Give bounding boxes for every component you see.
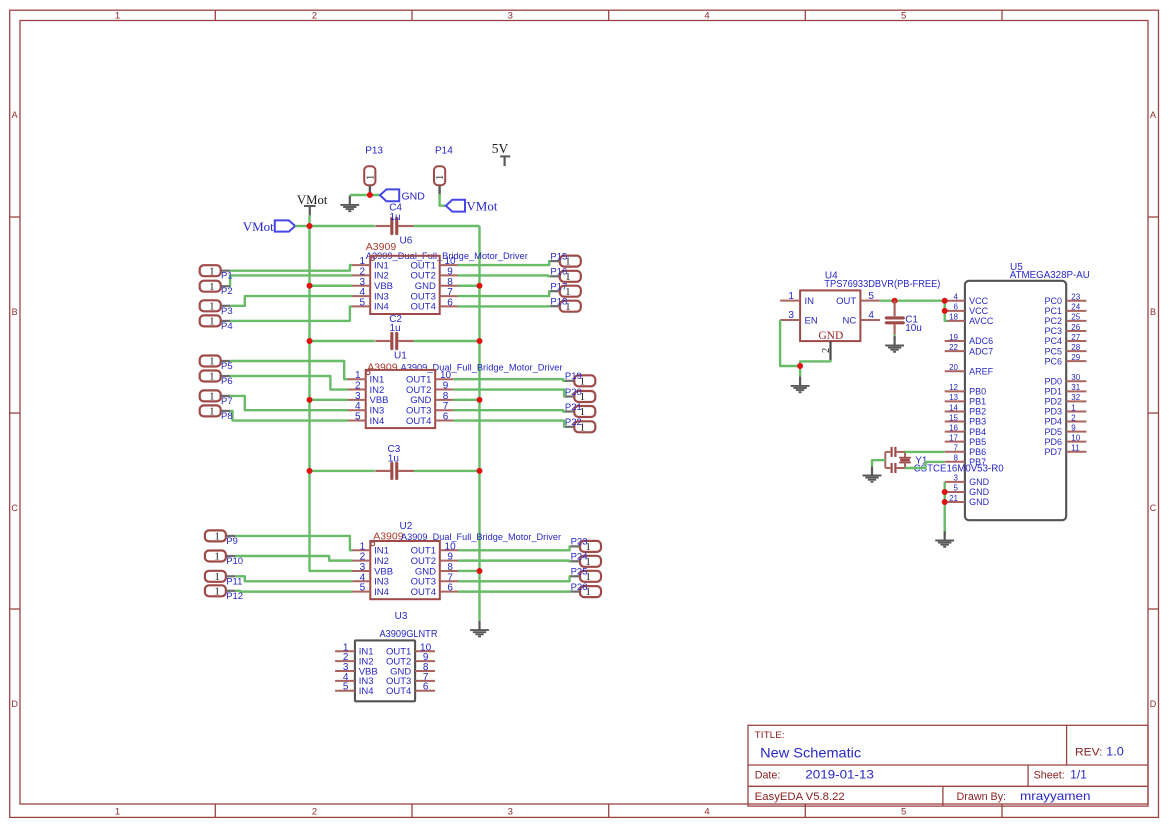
wire VMot bus to C2 xyxy=(310,340,375,342)
svg-text:28: 28 xyxy=(1071,343,1080,352)
wire P12 to U2 IN4 xyxy=(235,590,352,593)
svg-text:5: 5 xyxy=(901,11,906,22)
svg-text:EasyEDA V5.8.22: EasyEDA V5.8.22 xyxy=(755,791,845,803)
connector P9 xyxy=(205,530,238,547)
svg-text:12: 12 xyxy=(949,383,958,392)
svg-text:21: 21 xyxy=(949,494,958,503)
svg-text:ATMEGA328P-AU: ATMEGA328P-AU xyxy=(1010,270,1090,281)
wire P10 to U2 IN2 xyxy=(235,556,352,561)
wire VMot bus to U1 VBB xyxy=(310,399,348,401)
svg-text:1: 1 xyxy=(1071,403,1076,412)
wire P1 to U6 IN1 xyxy=(230,265,352,271)
svg-text:P2: P2 xyxy=(221,286,233,297)
svg-text:ADC6: ADC6 xyxy=(969,336,993,346)
svg-text:3: 3 xyxy=(508,807,513,818)
wire U2 GND to GND bus xyxy=(458,570,480,572)
svg-text:1.0: 1.0 xyxy=(1106,744,1124,758)
wire U4 GND pin to ground node xyxy=(800,360,830,377)
wire P9 to U2 IN1 xyxy=(235,536,352,550)
wire U6 OUT2 to P16 xyxy=(458,274,551,277)
svg-text:U1: U1 xyxy=(394,351,407,362)
svg-text:PC5: PC5 xyxy=(1044,346,1062,356)
svg-text:P6: P6 xyxy=(221,376,233,387)
svg-text:1u: 1u xyxy=(390,212,401,223)
svg-text:1/1: 1/1 xyxy=(1070,768,1087,782)
svg-text:D: D xyxy=(11,699,18,709)
connector P12 xyxy=(205,585,243,602)
wire U4 EN to ground node xyxy=(780,320,800,366)
connector P23 xyxy=(571,537,601,553)
svg-text:5V: 5V xyxy=(492,141,509,156)
svg-text:16: 16 xyxy=(949,423,958,432)
svg-text:1: 1 xyxy=(115,11,120,22)
svg-text:PD1: PD1 xyxy=(1044,387,1062,397)
svg-text:P11: P11 xyxy=(226,576,242,587)
svg-text:13: 13 xyxy=(949,393,958,402)
svg-text:OUT4: OUT4 xyxy=(411,302,436,313)
wire VMot bus to C3 xyxy=(310,470,375,472)
wire VMot vertical bus (left) xyxy=(310,226,353,571)
wire VMot flag to bus xyxy=(295,225,309,227)
connector P20 xyxy=(565,387,595,403)
svg-text:P16: P16 xyxy=(550,267,567,278)
svg-text:1: 1 xyxy=(209,356,215,368)
net flag VMot (left) xyxy=(243,219,295,234)
svg-text:IN: IN xyxy=(805,296,815,307)
connector P7 xyxy=(200,390,233,407)
svg-text:3: 3 xyxy=(788,310,794,321)
svg-text:6: 6 xyxy=(447,583,453,594)
connector P6 xyxy=(200,371,233,388)
junction GND bus / U6 GND xyxy=(477,283,483,289)
wire U4 OUT to U5 VCC/AVCC xyxy=(945,301,947,321)
svg-text:D: D xyxy=(1150,699,1157,709)
svg-text:PD6: PD6 xyxy=(1044,437,1062,447)
svg-text:GND: GND xyxy=(969,497,990,507)
connector P10 xyxy=(205,551,243,568)
connector P3 xyxy=(200,300,233,317)
ground below U5 GND pins xyxy=(935,531,954,547)
frame column numbers bottom xyxy=(115,807,906,818)
ground below C1 xyxy=(885,336,904,352)
IC U1 A3909 dual full bridge motor driver xyxy=(348,370,454,428)
wire U5 GND pins to ground xyxy=(944,482,946,537)
IC U5 ATMEGA328P-AU microcontroller xyxy=(945,281,1087,520)
IC U6 A3909 dual full bridge motor driver xyxy=(352,256,458,314)
svg-text:31: 31 xyxy=(1071,383,1080,392)
svg-text:PD7: PD7 xyxy=(1044,447,1062,457)
wire U6 OUT3 to P17 xyxy=(458,291,551,296)
svg-text:1: 1 xyxy=(209,371,215,383)
connector P5 xyxy=(200,356,233,373)
svg-text:PD2: PD2 xyxy=(1044,397,1062,407)
wire P7 to U1 IN3 xyxy=(230,396,348,410)
svg-text:P13: P13 xyxy=(365,145,383,156)
capacitor C2 1u xyxy=(375,314,414,349)
svg-text:Sheet:: Sheet: xyxy=(1034,770,1065,782)
svg-text:10u: 10u xyxy=(905,323,922,334)
wire P2 to U6 IN2 xyxy=(230,275,353,286)
svg-text:New Schematic: New Schematic xyxy=(760,744,861,760)
wire Y1 to PB7 xyxy=(905,462,945,468)
svg-text:OUT4: OUT4 xyxy=(386,686,411,697)
svg-text:1: 1 xyxy=(214,531,220,543)
connector P18 xyxy=(550,297,580,313)
junction VMot bus / U1 VBB xyxy=(307,397,313,403)
connector P14 xyxy=(434,145,453,195)
frame row letters left xyxy=(11,110,18,709)
connector P2 xyxy=(200,281,233,298)
svg-text:6: 6 xyxy=(423,682,429,693)
svg-text:GND: GND xyxy=(402,190,426,202)
wire U6 GND to GND bus xyxy=(458,285,480,287)
junction VMot bus / C2 xyxy=(307,338,313,344)
svg-text:6: 6 xyxy=(443,412,449,423)
connector P25 xyxy=(571,567,601,583)
svg-text:P7: P7 xyxy=(221,396,233,407)
junction VMot flag / bus xyxy=(307,223,313,229)
wire U1 GND to GND bus xyxy=(453,399,479,401)
svg-text:9: 9 xyxy=(1071,423,1076,432)
svg-text:1: 1 xyxy=(214,551,220,563)
svg-text:1: 1 xyxy=(209,406,215,418)
svg-text:A: A xyxy=(12,110,18,120)
svg-text:U6: U6 xyxy=(400,236,413,247)
svg-text:1u: 1u xyxy=(390,323,401,334)
svg-text:14: 14 xyxy=(949,403,958,412)
svg-text:AREF: AREF xyxy=(969,366,994,376)
svg-text:U3: U3 xyxy=(395,611,408,622)
wire P4 to U6 IN4 xyxy=(230,306,352,320)
svg-text:Drawn By:: Drawn By: xyxy=(957,791,1007,803)
svg-text:P21: P21 xyxy=(565,402,582,413)
capacitor C1 10u xyxy=(886,301,922,335)
svg-text:A3909: A3909 xyxy=(367,361,398,373)
capacitor C4 leads/wires right to GND bus xyxy=(414,225,480,227)
svg-text:PC0: PC0 xyxy=(1044,296,1062,306)
wire C1 to ground xyxy=(893,334,895,339)
svg-text:P23: P23 xyxy=(571,537,588,548)
wire U2 OUT2 to P24 xyxy=(458,559,571,562)
svg-text:OUT: OUT xyxy=(836,296,856,307)
svg-text:IN4: IN4 xyxy=(374,302,389,313)
wire P3 to U6 IN3 xyxy=(230,296,352,306)
wire U2 OUT3 to P25 xyxy=(458,576,571,581)
svg-text:REV:: REV: xyxy=(1075,746,1103,758)
svg-text:4: 4 xyxy=(704,807,709,818)
ground below U4 xyxy=(791,377,810,393)
wire Y1 to PB6 xyxy=(905,451,945,453)
svg-text:5: 5 xyxy=(360,583,366,594)
svg-text:P10: P10 xyxy=(226,556,243,567)
capacitor C4 1u xyxy=(375,203,414,234)
svg-text:P12: P12 xyxy=(226,591,243,602)
svg-text:1: 1 xyxy=(435,175,446,180)
svg-text:TITLE:: TITLE: xyxy=(755,730,785,741)
junction VCC pin 4 xyxy=(942,298,948,304)
svg-text:PB1: PB1 xyxy=(969,397,986,407)
svg-text:19: 19 xyxy=(949,333,958,342)
junction GND bus / C3 xyxy=(477,468,483,474)
connector P22 xyxy=(565,417,595,433)
svg-text:VMot: VMot xyxy=(297,193,328,207)
wire U1 OUT2 to P20 xyxy=(453,390,565,397)
junction VMot bus / C3 xyxy=(307,468,313,474)
connector P21 xyxy=(565,402,595,418)
wire U1 OUT4 to P22 xyxy=(453,421,565,427)
svg-text:3: 3 xyxy=(954,474,959,483)
svg-text:1: 1 xyxy=(214,585,220,597)
svg-text:1: 1 xyxy=(209,265,215,277)
svg-text:PC4: PC4 xyxy=(1044,336,1062,346)
svg-text:4: 4 xyxy=(868,310,874,321)
svg-text:AVCC: AVCC xyxy=(969,316,994,326)
svg-text:10: 10 xyxy=(1071,433,1080,442)
svg-text:4: 4 xyxy=(704,11,709,22)
svg-text:P25: P25 xyxy=(571,567,588,578)
svg-text:24: 24 xyxy=(1071,303,1080,312)
svg-text:P15: P15 xyxy=(550,251,567,262)
svg-text:PD5: PD5 xyxy=(1044,427,1062,437)
svg-text:P20: P20 xyxy=(565,387,582,398)
resonator Y1 CSTCE16M0V53-R0 xyxy=(885,447,911,473)
svg-text:1: 1 xyxy=(209,300,215,312)
junction VCC pin 6 xyxy=(942,308,948,314)
wire P14 to VMot flag xyxy=(440,194,446,206)
svg-text:PD0: PD0 xyxy=(1044,376,1062,386)
svg-text:PB5: PB5 xyxy=(969,437,986,447)
svg-text:EN: EN xyxy=(805,316,818,327)
svg-text:1: 1 xyxy=(209,281,215,293)
svg-text:IN4: IN4 xyxy=(359,686,374,697)
svg-text:GND: GND xyxy=(969,487,990,497)
svg-text:5: 5 xyxy=(868,291,874,302)
connector P24 xyxy=(571,552,601,568)
ground at bottom of GND bus xyxy=(470,621,489,637)
wire GND vertical bus (right) xyxy=(478,226,480,621)
junction GND pin 21 xyxy=(942,499,948,505)
svg-text:5: 5 xyxy=(360,297,366,308)
svg-text:P4: P4 xyxy=(221,321,233,332)
power flag 5V xyxy=(492,141,510,166)
net flag GND xyxy=(380,189,425,202)
svg-text:P14: P14 xyxy=(435,145,453,156)
connector P11 xyxy=(205,571,243,588)
svg-text:VCC: VCC xyxy=(969,306,989,316)
svg-text:PC1: PC1 xyxy=(1044,306,1062,316)
svg-text:IN4: IN4 xyxy=(370,416,385,427)
svg-text:7: 7 xyxy=(954,444,959,453)
svg-text:30: 30 xyxy=(1071,373,1080,382)
svg-text:2: 2 xyxy=(1071,413,1076,422)
capacitor C3 1u xyxy=(375,444,414,479)
svg-text:P22: P22 xyxy=(565,417,582,428)
wire U1 OUT3 to P21 xyxy=(453,410,565,411)
IC U3 A3909GLNTR xyxy=(335,640,435,701)
svg-text:B: B xyxy=(12,307,18,317)
svg-text:2019-01-13: 2019-01-13 xyxy=(805,768,874,782)
svg-text:1: 1 xyxy=(115,807,120,818)
svg-text:22: 22 xyxy=(949,343,958,352)
junction GND bus / U1 GND xyxy=(477,397,483,403)
connector P4 xyxy=(200,315,233,332)
svg-text:PD3: PD3 xyxy=(1044,407,1062,417)
junction U4 EN/GND xyxy=(797,363,803,369)
svg-text:OUT4: OUT4 xyxy=(411,587,436,598)
svg-text:29: 29 xyxy=(1071,353,1080,362)
svg-text:P1: P1 xyxy=(221,271,233,282)
svg-text:3: 3 xyxy=(508,11,513,22)
net flag VMot (right) xyxy=(446,199,498,214)
svg-text:5: 5 xyxy=(343,682,349,693)
wire VMot flag stem to bus xyxy=(308,215,310,226)
connector P19 xyxy=(565,371,595,387)
svg-text:P3: P3 xyxy=(221,306,233,317)
svg-text:A: A xyxy=(1150,110,1156,120)
svg-text:P18: P18 xyxy=(550,297,567,308)
svg-text:P24: P24 xyxy=(571,552,588,563)
svg-text:P9: P9 xyxy=(226,536,238,547)
svg-text:GND: GND xyxy=(969,477,990,487)
IC U4 TPS76933DBVR voltage regulator xyxy=(780,290,880,360)
connector P15 xyxy=(550,251,580,267)
svg-text:5: 5 xyxy=(954,484,959,493)
wire VMot row to C4 xyxy=(310,225,375,227)
ground near P13 xyxy=(340,196,359,212)
wire P11 to U2 IN3 xyxy=(235,576,352,581)
svg-text:Date:: Date: xyxy=(755,770,781,782)
wire Y1 common to ground xyxy=(872,460,885,466)
svg-text:15: 15 xyxy=(949,413,958,422)
junction P13/GND xyxy=(367,192,373,198)
frame column numbers top xyxy=(115,11,906,22)
svg-text:32: 32 xyxy=(1071,393,1080,402)
svg-text:P5: P5 xyxy=(221,361,233,372)
svg-text:8: 8 xyxy=(954,454,959,463)
svg-text:6: 6 xyxy=(954,303,959,312)
svg-text:C: C xyxy=(1150,503,1157,513)
svg-text:VMot: VMot xyxy=(243,219,274,234)
svg-text:17: 17 xyxy=(949,433,958,442)
wire P6 to U1 IN2 xyxy=(230,376,348,390)
svg-text:PC6: PC6 xyxy=(1044,356,1062,366)
svg-text:11: 11 xyxy=(1071,444,1080,453)
junction VMot bus / U6 VBB xyxy=(307,283,313,289)
svg-text:A3909GLNTR: A3909GLNTR xyxy=(380,629,438,640)
svg-text:PC3: PC3 xyxy=(1044,326,1062,336)
svg-text:PD4: PD4 xyxy=(1044,417,1062,427)
connector P1 xyxy=(200,265,233,282)
connector P8 xyxy=(200,405,233,422)
junction OUT / C1 xyxy=(892,298,898,304)
connector P26 xyxy=(571,582,601,598)
svg-text:P17: P17 xyxy=(550,282,567,293)
wire C2 to GND bus xyxy=(414,340,480,342)
svg-text:1: 1 xyxy=(788,291,794,302)
svg-text:mrayyamen: mrayyamen xyxy=(1020,789,1091,803)
svg-text:5: 5 xyxy=(355,412,361,423)
svg-text:PC2: PC2 xyxy=(1044,316,1062,326)
svg-text:23: 23 xyxy=(1071,293,1080,302)
wire C3 to GND bus xyxy=(414,470,480,472)
junction GND pin 5 xyxy=(942,489,948,495)
svg-text:1: 1 xyxy=(209,316,215,328)
svg-text:2: 2 xyxy=(312,807,317,818)
svg-text:C: C xyxy=(11,503,18,513)
title block xyxy=(748,725,1148,806)
svg-text:B: B xyxy=(1150,307,1156,317)
wire U2 OUT4 to P26 xyxy=(458,590,571,592)
connector P13 xyxy=(364,145,383,195)
svg-text:VCC: VCC xyxy=(969,296,989,306)
svg-text:P8: P8 xyxy=(221,411,233,422)
svg-text:1: 1 xyxy=(209,391,215,403)
svg-text:P26: P26 xyxy=(571,582,588,593)
ground left of Y1 xyxy=(863,466,882,482)
wire U6 OUT1 to P15 xyxy=(458,261,551,265)
svg-text:PB4: PB4 xyxy=(969,427,986,437)
svg-text:TPS76933DBVR(PB-FREE): TPS76933DBVR(PB-FREE) xyxy=(824,279,940,290)
svg-text:NC: NC xyxy=(842,316,856,327)
svg-text:IN4: IN4 xyxy=(374,587,389,598)
frame row letters right xyxy=(1150,110,1157,709)
wire U1 OUT1 to P19 xyxy=(453,379,565,381)
svg-text:PB6: PB6 xyxy=(969,447,986,457)
wire VMot bus to U6 VBB xyxy=(310,285,353,287)
svg-text:20: 20 xyxy=(949,363,958,372)
power flag VMot (top of bus) xyxy=(297,193,328,216)
svg-text:2: 2 xyxy=(821,348,832,353)
svg-text:PB0: PB0 xyxy=(969,387,986,397)
svg-text:18: 18 xyxy=(949,313,958,322)
svg-text:2: 2 xyxy=(312,11,317,22)
junction GND bus / C2 xyxy=(477,338,483,344)
svg-text:1: 1 xyxy=(214,571,220,583)
svg-text:PB2: PB2 xyxy=(969,407,986,417)
IC U2 A3909 dual full bridge motor driver xyxy=(352,541,458,599)
svg-text:27: 27 xyxy=(1071,333,1080,342)
svg-text:26: 26 xyxy=(1071,323,1080,332)
svg-text:GND: GND xyxy=(818,330,843,342)
wire U4 OUT to C1 and U5 VCC xyxy=(880,300,945,302)
wire U2 OUT1 to P23 xyxy=(458,546,571,550)
wire P5 to U1 IN1 xyxy=(230,361,348,379)
svg-text:5: 5 xyxy=(901,807,906,818)
svg-text:P19: P19 xyxy=(565,371,582,382)
svg-text:25: 25 xyxy=(1071,313,1080,322)
svg-text:A3909_Dual_Full_Bridge_Motor_D: A3909_Dual_Full_Bridge_Motor_Driver xyxy=(401,362,563,373)
wire P13 to ground and GND flag xyxy=(350,194,380,196)
connector P16 xyxy=(550,267,580,283)
svg-text:ADC7: ADC7 xyxy=(969,346,993,356)
svg-text:1: 1 xyxy=(365,175,376,180)
svg-text:6: 6 xyxy=(447,297,453,308)
svg-text:4: 4 xyxy=(954,293,959,302)
connector P17 xyxy=(550,282,580,298)
wire U6 OUT4 to P18 xyxy=(458,305,551,308)
svg-text:VMot: VMot xyxy=(466,199,497,214)
svg-text:CSTCE16M0V53-R0: CSTCE16M0V53-R0 xyxy=(914,464,1004,475)
svg-text:PB3: PB3 xyxy=(969,417,986,427)
wire P8 to U1 IN4 xyxy=(230,411,348,421)
svg-text:OUT4: OUT4 xyxy=(406,416,431,427)
junction GND bus / U2 GND xyxy=(477,568,483,574)
svg-text:1u: 1u xyxy=(388,453,399,464)
